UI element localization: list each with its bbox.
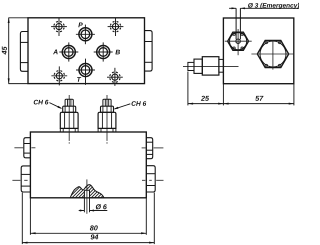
mounting hole top-right [108, 18, 124, 36]
adjuster large block [202, 57, 219, 75]
dimension 45 line with arrows [8, 18, 10, 84]
dimension 25-57 extension lines [188, 72, 294, 106]
label T [77, 77, 81, 82]
dimension text 57 [255, 96, 263, 101]
upper-left side plug [24, 138, 31, 158]
label Ø3 Emergency [248, 3, 299, 9]
adjustment screw left (CH 6) [60, 95, 78, 144]
dimension line 80 [30, 232, 146, 234]
dimension 80-94 extension lines [22, 193, 154, 245]
dimension text 94 [91, 234, 99, 239]
adjuster neck block [219, 59, 224, 72]
emergency hole Ø3 bore lines [236, 8, 240, 39]
Ø6 hole centerline [86, 179, 88, 213]
dimension text 45 [2, 46, 7, 54]
lower-right side plug [146, 166, 155, 192]
Ø6 section break outline with hatching [58, 183, 125, 199]
dimension line 94 [22, 242, 154, 244]
lower-right plug centerline [142, 179, 164, 181]
port P [76, 25, 95, 45]
port B [94, 42, 113, 61]
dimension line 57 [223, 103, 294, 105]
port T [76, 59, 95, 85]
upper-right plug centerline [142, 147, 164, 149]
side view: valve body outline [223, 18, 293, 84]
leader line for Ø3 label [229, 7, 299, 9]
mounting hole bottom-left [51, 66, 67, 85]
adjustment screw right (CH 6) [98, 95, 116, 144]
adjuster tip block [188, 62, 194, 70]
main cartridge centerlines [251, 40, 293, 70]
dimension text Ø6 [96, 204, 107, 209]
label B [115, 50, 120, 55]
mounting hole bottom-right [107, 68, 123, 86]
label CH 6 right [132, 101, 147, 106]
mounting hole top-left [51, 18, 67, 36]
upper-left plug centerline [14, 147, 35, 149]
lower-left plug centerline [12, 179, 27, 181]
label A [53, 50, 58, 55]
label P [78, 23, 82, 28]
adjuster middle block [194, 59, 202, 73]
dimension text 25 [201, 96, 209, 101]
emergency plug centerlines [225, 29, 252, 55]
dimension line 25 [188, 103, 224, 105]
upper-right side plug [146, 138, 152, 159]
label CH 6 left [34, 100, 49, 105]
Ø6 hole bore lines [84, 190, 89, 197]
main cartridge hexagon [257, 40, 288, 67]
dimension 45 extension lines [8, 18, 28, 84]
lower-left side plug [21, 166, 30, 192]
port A [59, 42, 78, 61]
emergency plug hexagon [228, 32, 249, 50]
Ø6 extension lines [84, 199, 89, 213]
adjuster cartridge end centerline [183, 66, 239, 68]
Ø6 dimension arrows and leader [79, 210, 108, 212]
top view: left side plug tab [20, 32, 28, 72]
leader CH 6 left [49, 103, 62, 109]
top view: right side plug tab [145, 31, 153, 72]
front view: valve body outline [30, 132, 146, 198]
leader CH 6 right [113, 104, 130, 110]
top view: valve body outline [28, 18, 145, 84]
dimension text 80 [90, 225, 98, 230]
